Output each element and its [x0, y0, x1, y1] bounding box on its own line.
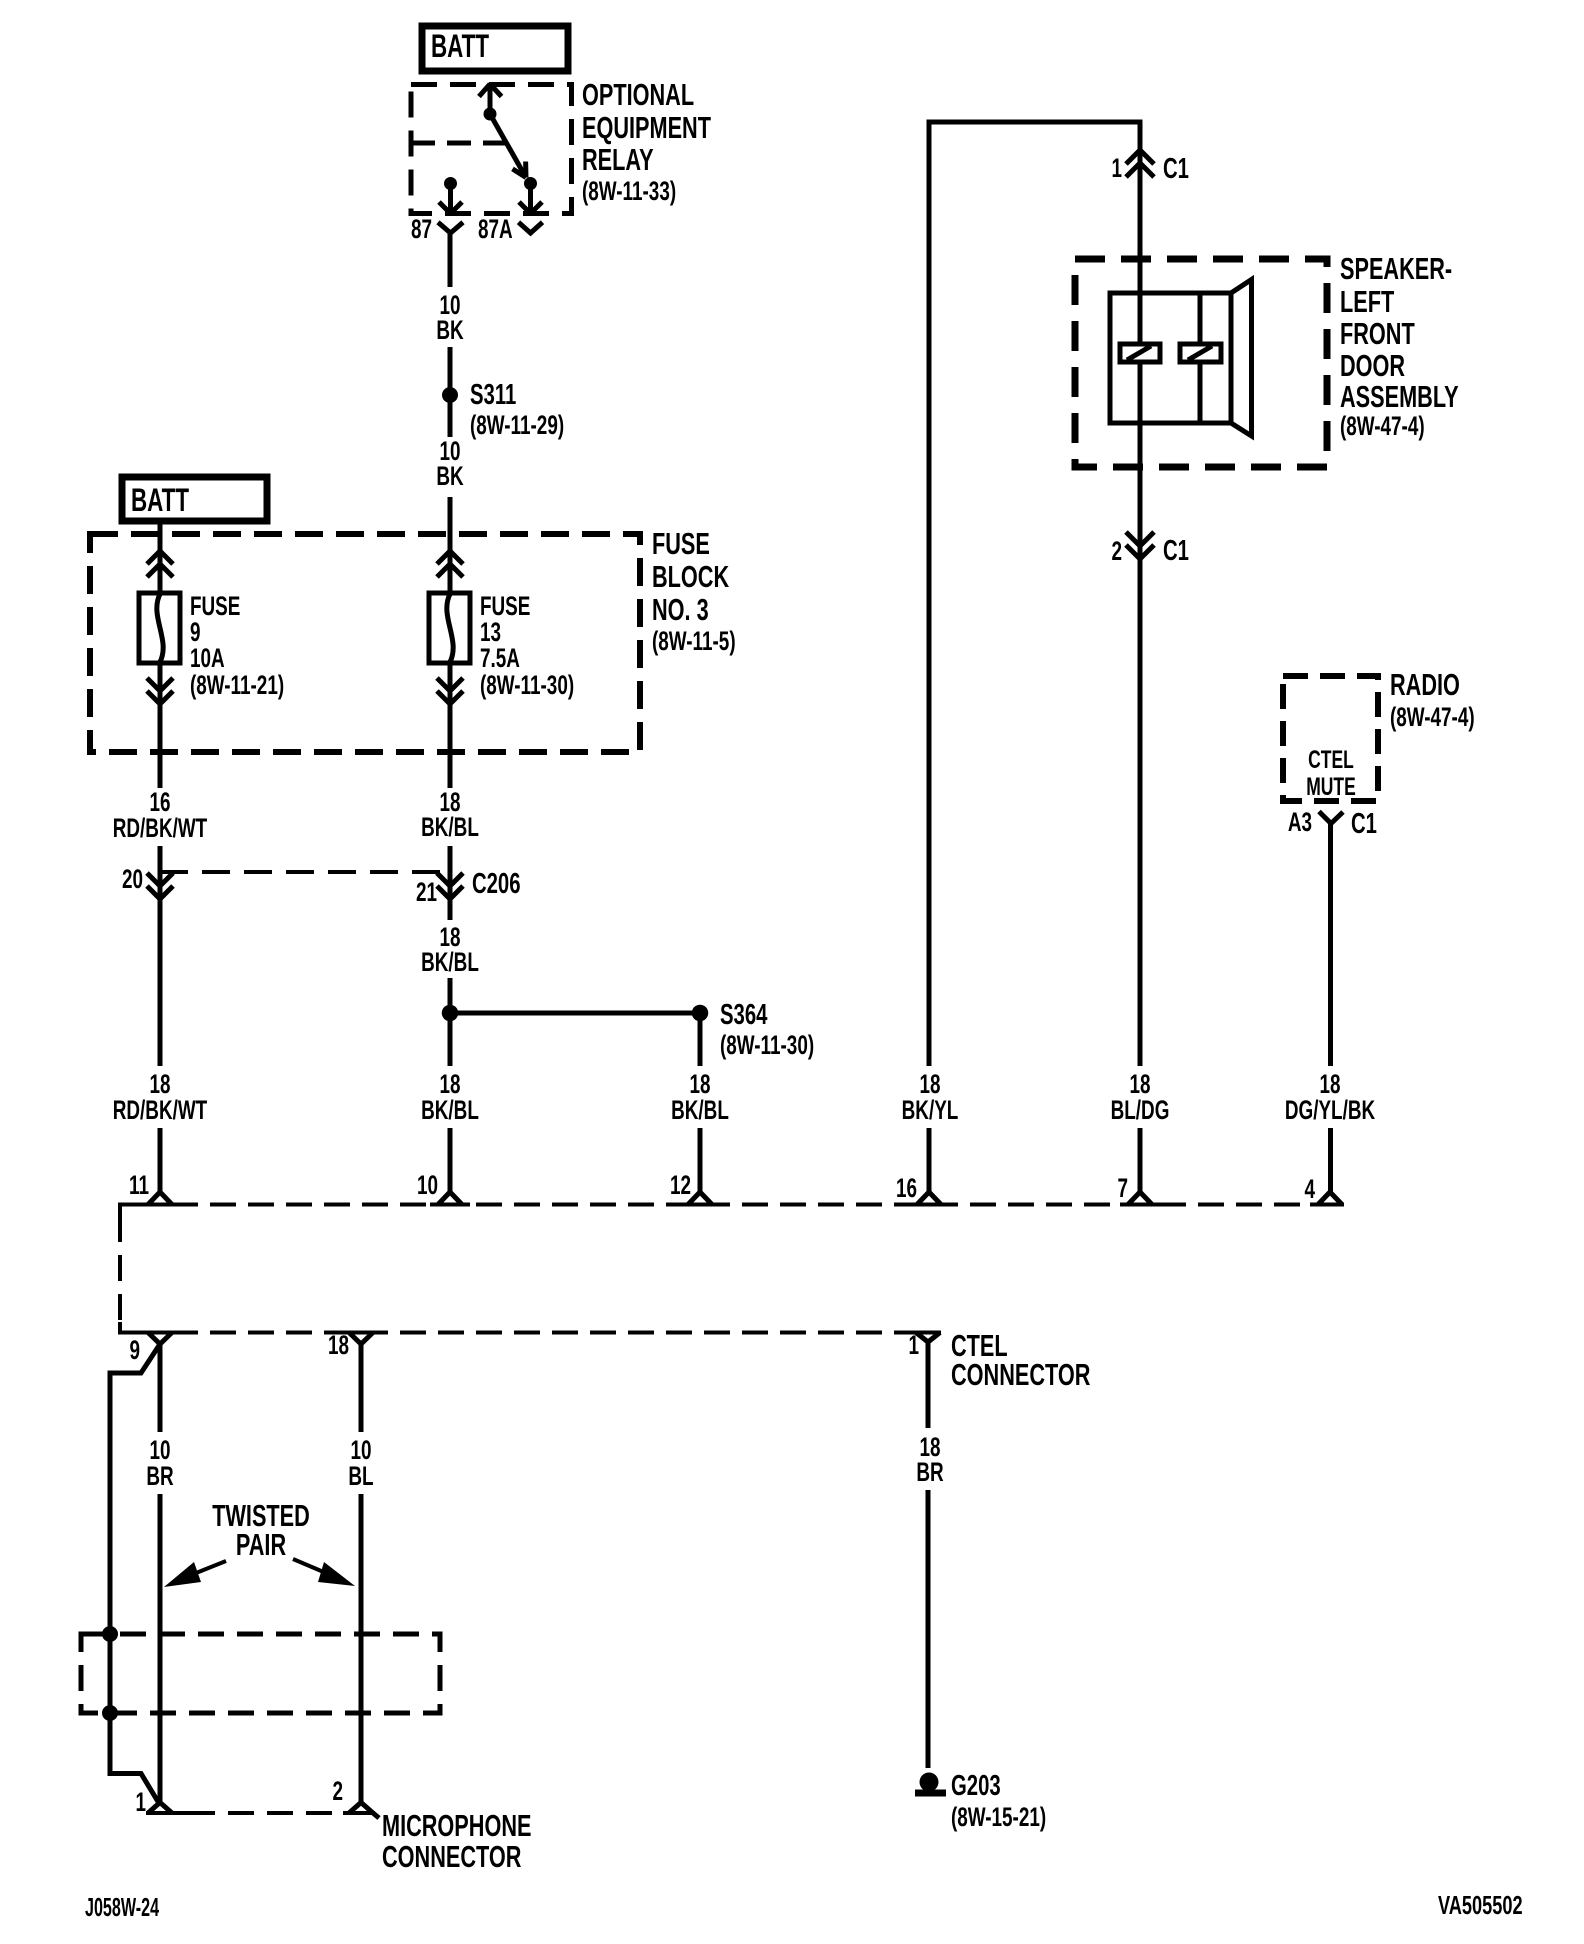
svg-text:20: 20 — [122, 864, 143, 894]
svg-text:RD/BK/WT: RD/BK/WT — [113, 1095, 207, 1125]
label OPTIONAL EQUIPMENT RELAY (8W-11-33) — [582, 77, 712, 206]
svg-text:ASSEMBLY: ASSEMBLY — [1340, 379, 1459, 414]
label CTEL pin 10 — [417, 1170, 438, 1200]
svg-text:OPTIONAL: OPTIONAL — [582, 77, 694, 112]
CTEL pin 11 — [120, 1192, 180, 1205]
ground G203 symbol — [915, 1773, 946, 1794]
svg-text:BR: BR — [146, 1461, 173, 1491]
label CTEL pin 9 — [129, 1335, 140, 1365]
svg-text:BL/DG: BL/DG — [1111, 1095, 1170, 1125]
shield branch dot lower — [102, 1705, 118, 1721]
CTEL pin 16 — [910, 1192, 950, 1205]
svg-text:BK/YL: BK/YL — [902, 1095, 959, 1125]
label microphone pin 2 — [332, 1776, 343, 1806]
svg-text:CTEL: CTEL — [1308, 745, 1354, 774]
svg-text:S311: S311 — [470, 379, 516, 411]
microphone pin 2 — [343, 1803, 379, 1819]
wire top jumper (speaker feed) — [929, 122, 1140, 1192]
label 10 BK lower — [436, 436, 463, 491]
svg-text:18: 18 — [328, 1330, 349, 1360]
svg-text:C1: C1 — [1163, 153, 1189, 185]
label 18 BK/BL (right) — [671, 1069, 729, 1125]
label SPEAKER-LEFT FRONT DOOR ASSEMBLY (8W-47-4) — [1340, 251, 1459, 441]
svg-text:FRONT: FRONT — [1340, 316, 1415, 351]
label C206 pin 20 — [122, 864, 143, 894]
speaker connector pin 2 C1 chevrons — [1126, 532, 1154, 559]
svg-text:C1: C1 — [1351, 808, 1377, 840]
svg-text:BATT: BATT — [431, 28, 489, 64]
CTEL connector left corner lower — [120, 1322, 134, 1333]
fuse 13 output chevrons — [437, 678, 463, 704]
svg-text:(8W-11-29): (8W-11-29) — [470, 410, 564, 440]
label C206 pin 21 — [416, 877, 437, 907]
pin 87 connector chevron — [438, 222, 463, 233]
CTEL connector bus lower dashed line — [134, 1331, 908, 1335]
svg-text:LEFT: LEFT — [1340, 284, 1395, 319]
svg-text:BK/BL: BK/BL — [671, 1095, 729, 1125]
svg-text:(8W-11-21): (8W-11-21) — [190, 670, 284, 700]
svg-text:PAIR: PAIR — [236, 1527, 286, 1562]
label CTEL MUTE — [1306, 745, 1356, 801]
label FUSE 13 7.5A (8W-11-30) — [480, 591, 574, 700]
svg-text:21: 21 — [416, 877, 437, 907]
label speaker C1 lower — [1163, 535, 1189, 567]
microphone in-line connector dashed box — [81, 1634, 440, 1713]
twisted pair shield branch wire — [110, 1344, 160, 1805]
svg-text:BR: BR — [916, 1457, 943, 1487]
svg-text:1: 1 — [908, 1330, 919, 1360]
optional equipment relay dashed box — [411, 85, 572, 214]
relay internal divider — [411, 141, 505, 146]
battery feed box BATT (fuse block) — [122, 477, 267, 521]
svg-text:SPEAKER-: SPEAKER- — [1340, 251, 1452, 286]
svg-text:1: 1 — [135, 1787, 146, 1817]
svg-text:BATT: BATT — [131, 482, 189, 518]
svg-text:(8W-11-5): (8W-11-5) — [652, 626, 736, 656]
label CTEL pin 4 — [1304, 1174, 1315, 1204]
svg-text:RELAY: RELAY — [582, 142, 654, 177]
label CTEL pin 7 — [1117, 1173, 1128, 1203]
CTEL pin 4 — [1310, 1192, 1344, 1205]
svg-text:4: 4 — [1304, 1174, 1315, 1204]
wire 18 BR (CTEL pin 1 to ground G203) — [926, 1342, 931, 1768]
svg-text:FUSE: FUSE — [652, 526, 710, 561]
svg-text:MICROPHONE: MICROPHONE — [382, 1808, 531, 1843]
label splice S364 (8W-11-30) — [720, 999, 814, 1060]
relay pivot dot — [484, 108, 497, 121]
svg-text:(8W-11-33): (8W-11-33) — [582, 176, 676, 206]
svg-text:87: 87 — [411, 214, 432, 244]
svg-text:C206: C206 — [472, 868, 521, 900]
label TWISTED PAIR — [212, 1498, 310, 1562]
label 18 RD/BK/WT — [113, 1069, 207, 1125]
svg-text:(8W-47-4): (8W-47-4) — [1340, 411, 1425, 441]
svg-text:BK/BL: BK/BL — [421, 1095, 479, 1125]
label CTEL CONNECTOR — [951, 1328, 1090, 1392]
label CTEL pin 16 — [896, 1173, 917, 1203]
splice S364 dot left — [442, 1005, 459, 1022]
twisted pair left arrow — [164, 1561, 226, 1587]
svg-text:(8W-11-30): (8W-11-30) — [480, 670, 574, 700]
svg-text:2: 2 — [332, 1776, 343, 1806]
svg-text:RADIO: RADIO — [1390, 667, 1460, 702]
label connector C206 — [472, 868, 521, 900]
CTEL pin 9 — [120, 1333, 180, 1345]
relay contact dot 87 — [444, 177, 457, 190]
svg-text:C1: C1 — [1163, 535, 1189, 567]
relay coil feed arrow (to BATT) — [479, 84, 502, 114]
svg-text:10: 10 — [417, 1170, 438, 1200]
svg-text:(8W-15-21): (8W-15-21) — [951, 1802, 1046, 1832]
label CTEL pin 11 — [129, 1170, 149, 1200]
splice S364 dot right — [692, 1005, 709, 1022]
pin 87A connector chevron — [519, 222, 543, 233]
label speaker pin 2 — [1111, 536, 1122, 566]
svg-text:BL: BL — [348, 1461, 373, 1491]
svg-text:BLOCK: BLOCK — [652, 559, 730, 594]
svg-text:11: 11 — [129, 1170, 149, 1200]
label 18 BK/BL (above C206) — [421, 787, 479, 842]
label BATT (relay feed) — [431, 28, 489, 64]
label 18 BR — [916, 1432, 943, 1487]
label 10 BK upper — [436, 290, 463, 345]
svg-text:2: 2 — [1111, 536, 1122, 566]
label 18 BL/DG — [1111, 1069, 1170, 1125]
twisted pair right arrow — [293, 1559, 355, 1586]
label microphone pin 1 — [135, 1787, 146, 1817]
svg-text:9: 9 — [129, 1335, 140, 1365]
CTEL pin 10 — [430, 1192, 470, 1205]
wire BATT to fuse 9 — [158, 521, 163, 594]
C206 pin 20 chevrons — [147, 873, 173, 899]
microphone connector dashed line — [150, 1811, 350, 1815]
fuse 9 output chevrons — [147, 678, 173, 704]
svg-text:(8W-11-30): (8W-11-30) — [720, 1030, 814, 1060]
wire 18 BK/BL (S364 to CTEL pin 12) — [698, 1013, 703, 1192]
label FUSE BLOCK NO. 3 (8W-11-5) — [652, 526, 736, 656]
svg-text:EQUIPMENT: EQUIPMENT — [582, 110, 712, 145]
wire 18 BK/BL (fuse 13 to C206 pin 21 to S364 to CTEL pin 10) — [448, 662, 453, 1192]
svg-text:S364: S364 — [720, 999, 767, 1031]
label CTEL pin 18 — [328, 1330, 349, 1360]
label CTEL pin 1 — [908, 1330, 919, 1360]
svg-text:RD/BK/WT: RD/BK/WT — [113, 813, 207, 843]
label 18 BK/BL (below C206) — [421, 922, 479, 977]
label 10 BR — [146, 1435, 173, 1491]
radio pin A3 C1 chevron — [1319, 812, 1343, 824]
speaker left front door assembly dashed box — [1075, 259, 1327, 467]
label ground G203 (8W-15-21) — [951, 1770, 1046, 1832]
label plates — [110, 287, 1380, 1494]
CTEL pin 12 — [680, 1192, 720, 1205]
svg-text:A3: A3 — [1288, 807, 1312, 837]
svg-text:DOOR: DOOR — [1340, 348, 1405, 383]
svg-text:MUTE: MUTE — [1306, 772, 1356, 801]
svg-text:BK: BK — [436, 461, 463, 491]
fuse 9 — [139, 593, 180, 663]
label 18 BK/BL (left) — [421, 1069, 479, 1125]
CTEL pin 7 — [1120, 1192, 1160, 1205]
svg-text:BK/BL: BK/BL — [421, 947, 479, 977]
svg-text:BK: BK — [436, 315, 463, 345]
microphone pin 1 — [146, 1803, 193, 1814]
label 18 BK/YL — [902, 1069, 959, 1125]
fuse 13 — [429, 593, 470, 663]
relay terminal 87A arrow — [519, 184, 542, 214]
label splice S311 (8W-11-29) — [470, 379, 564, 440]
relay armature (switch arm) — [490, 114, 526, 178]
wire 10 BK (relay 87 to fuse 13) — [448, 233, 453, 594]
label FUSE 9 10A (8W-11-21) — [190, 591, 284, 700]
svg-text:CONNECTOR: CONNECTOR — [951, 1357, 1090, 1392]
svg-text:G203: G203 — [951, 1770, 1001, 1802]
svg-text:NO. 3: NO. 3 — [652, 592, 709, 627]
wire 10 BR (CTEL pin 9 to microphone pin 1) — [158, 1344, 163, 1803]
splice S364 jumper wire — [450, 1011, 700, 1016]
svg-text:7: 7 — [1117, 1173, 1128, 1203]
svg-text:10A: 10A — [190, 643, 225, 673]
svg-text:VA505502: VA505502 — [1438, 1891, 1523, 1920]
connector C206 dashed line — [160, 870, 450, 874]
CTEL pin 18 — [341, 1333, 381, 1345]
label drawing number VA505502 — [1438, 1891, 1523, 1920]
svg-text:J058W-24: J058W-24 — [85, 1892, 159, 1922]
wire 16 RD/BK/WT (fuse 9 to C206 pin 20 to CTEL pin 11) — [158, 662, 163, 1192]
label 18 DG/YL/BK — [1285, 1069, 1375, 1125]
svg-text:BK/BL: BK/BL — [421, 812, 479, 842]
relay contact dot 87A — [524, 177, 537, 190]
label 10 BL — [348, 1435, 373, 1491]
svg-text:7.5A: 7.5A — [480, 643, 520, 673]
wire 10 BL (CTEL pin 18 to microphone pin 2) — [359, 1344, 364, 1803]
label RADIO (8W-47-4) — [1390, 667, 1475, 732]
svg-text:(8W-47-4): (8W-47-4) — [1390, 702, 1475, 732]
shield branch dot upper — [102, 1626, 118, 1642]
label radio pin A3 — [1288, 807, 1312, 837]
CTEL connector left corner upper — [120, 1205, 134, 1217]
label radio C1 — [1351, 808, 1377, 840]
svg-text:87A: 87A — [478, 214, 513, 244]
fuse block no.3 dashed box — [90, 534, 640, 752]
label pin 87 — [411, 214, 432, 244]
svg-text:16: 16 — [896, 1173, 917, 1203]
battery feed box BATT (relay) — [422, 26, 568, 71]
fuse 13 input chevrons — [437, 551, 463, 577]
fuse 9 input chevrons — [147, 551, 173, 577]
label CTEL pin 12 — [670, 1170, 691, 1200]
svg-text:CONNECTOR: CONNECTOR — [382, 1839, 521, 1874]
relay terminal 87 arrow — [439, 184, 462, 214]
label MICROPHONE CONNECTOR — [382, 1808, 531, 1874]
CTEL connector bus upper dashed line — [134, 1203, 1316, 1207]
svg-text:12: 12 — [670, 1170, 691, 1200]
splice S311 dot — [442, 387, 458, 403]
label pin 87A — [478, 214, 513, 244]
label 16 RD/BK/WT — [113, 787, 207, 843]
CTEL connector left dashed vertical — [118, 1216, 122, 1324]
C206 pin 21 chevrons — [437, 873, 463, 899]
speaker symbol — [1110, 280, 1252, 437]
label BATT (fuse block feed) — [131, 482, 189, 518]
label sheet number J058W-24 — [85, 1892, 159, 1922]
radio dashed box — [1283, 676, 1378, 801]
wire 18 DG/YL/BK (radio to CTEL pin 4) — [1328, 824, 1333, 1193]
label speaker pin 1 — [1111, 153, 1122, 183]
speaker connector pin 1 C1 chevrons — [1126, 150, 1154, 177]
svg-text:1: 1 — [1111, 153, 1122, 183]
CTEL pin 1 — [908, 1333, 941, 1343]
svg-text:DG/YL/BK: DG/YL/BK — [1285, 1095, 1375, 1125]
label speaker C1 upper — [1163, 153, 1189, 185]
